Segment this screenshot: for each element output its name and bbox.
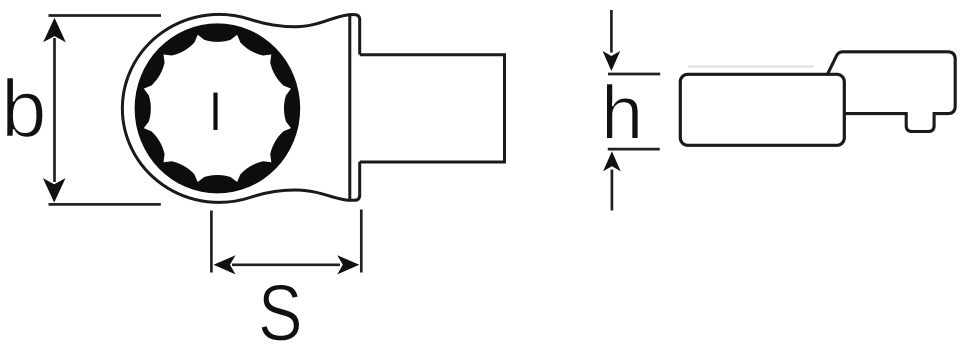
dimension h: bottom tick line [608,148,660,151]
center bar mark [213,93,217,130]
dimension S: left extension line [210,211,213,273]
dimension S: horizontal dimension line [232,263,340,266]
side view: tang body rectangle [680,74,844,145]
dimension h: top tick line [608,73,660,76]
dimension b: vertical dimension line [53,38,56,182]
ring head outer contour (front view) [122,14,359,202]
tang rectangle (insert shank 9x12) [360,55,505,162]
dimension h: bottom arrowhead (up) [603,151,621,171]
dimension b: bottom extension line [49,203,161,206]
dimension S: right extension line [360,210,363,273]
side view: head outline with square drive peg [827,52,955,132]
dimension h: top arrow shaft [610,10,613,53]
dimension S: right arrowhead [337,255,359,274]
dimension h: bottom arrow shaft [611,170,614,211]
svg-text:b: b [1,64,47,155]
dimension S: left arrowhead [214,255,236,274]
dimension b: top extension line [49,14,162,17]
dimension h: top arrowhead (down) [603,51,621,71]
12-point ring (black annulus with double-hex profile) [135,23,301,193]
dimension b: bottom arrowhead [43,178,66,203]
side view: faint hidden edge [688,65,814,67]
dimension b: top arrowhead [43,18,66,43]
svg-text:h: h [601,71,643,156]
flange line between neck and end plate [348,16,351,199]
svg-text:S: S [258,268,303,355]
